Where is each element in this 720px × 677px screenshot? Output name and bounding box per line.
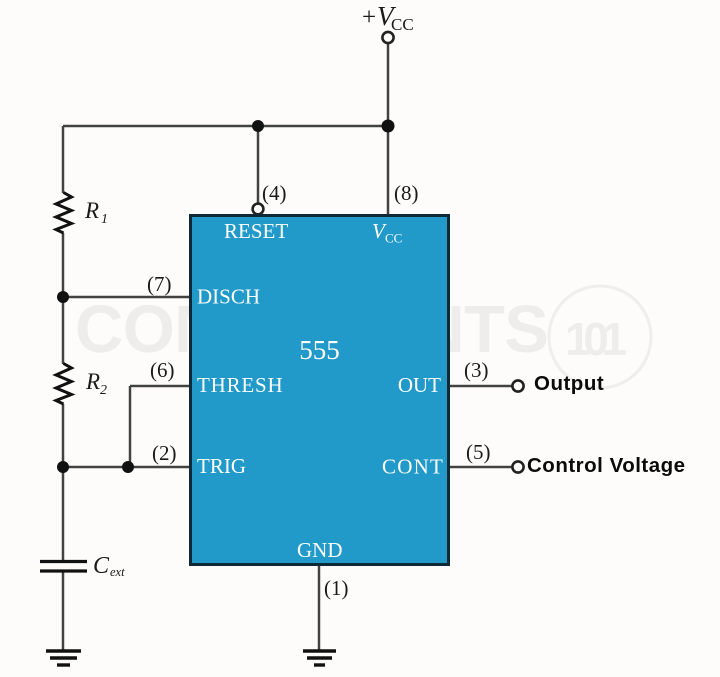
svg-text:(1): (1) bbox=[324, 576, 349, 600]
svg-text:2: 2 bbox=[100, 383, 107, 398]
svg-text:CC: CC bbox=[385, 231, 402, 246]
svg-text:1: 1 bbox=[101, 212, 108, 227]
svg-text:(7): (7) bbox=[147, 272, 172, 296]
svg-text:RESET: RESET bbox=[224, 219, 288, 243]
svg-text:(4): (4) bbox=[262, 181, 287, 205]
svg-text:R: R bbox=[85, 369, 100, 394]
svg-text:(5): (5) bbox=[466, 440, 491, 464]
svg-text:Output: Output bbox=[534, 372, 604, 395]
svg-text:(2): (2) bbox=[152, 441, 177, 465]
svg-text:CC: CC bbox=[391, 15, 414, 34]
svg-text:DISCH: DISCH bbox=[197, 285, 260, 309]
svg-text:THRESH: THRESH bbox=[197, 373, 283, 397]
svg-text:R: R bbox=[84, 198, 99, 223]
svg-text:TRIG: TRIG bbox=[197, 454, 246, 478]
svg-text:(3): (3) bbox=[464, 358, 489, 382]
svg-text:101: 101 bbox=[565, 313, 627, 365]
svg-text:CONT: CONT bbox=[382, 455, 444, 479]
svg-text:(6): (6) bbox=[150, 358, 175, 382]
svg-text:ext: ext bbox=[110, 565, 125, 579]
svg-text:(8): (8) bbox=[394, 181, 419, 205]
svg-text:GND: GND bbox=[297, 538, 343, 562]
svg-text:555: 555 bbox=[299, 335, 340, 365]
svg-text:Control Voltage: Control Voltage bbox=[527, 454, 686, 477]
svg-text:OUT: OUT bbox=[398, 373, 441, 397]
svg-text:C: C bbox=[93, 553, 110, 579]
svg-text:+: + bbox=[362, 4, 376, 31]
